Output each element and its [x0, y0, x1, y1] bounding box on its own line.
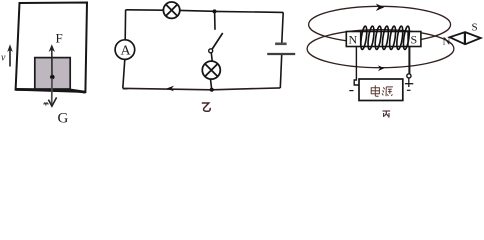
caption 丙	[383, 111, 391, 117]
compass needle	[450, 32, 481, 44]
wire battery down to bottom-right corner	[280, 55, 281, 88]
wire coil right to terminal	[408, 47, 410, 74]
switch S1 blade (open)	[212, 33, 223, 50]
svg-text:G: G	[58, 111, 69, 124]
svg-text:S: S	[411, 32, 418, 46]
wire switch to lamp L2	[210, 53, 213, 61]
minus tick	[407, 89, 411, 91]
battery BT1	[267, 44, 295, 54]
block (shaded)	[35, 58, 70, 89]
bottom wire left segment with current arrow	[123, 88, 212, 89]
svg-text:v: v	[1, 53, 6, 64]
junction node bottom	[210, 88, 214, 92]
svg-text:S: S	[472, 22, 478, 34]
svg-text:A: A	[121, 44, 132, 59]
center dot	[50, 75, 55, 80]
weight arrow G	[44, 78, 57, 106]
label minus	[349, 90, 353, 92]
wire lamp L2 to bottom junction	[211, 79, 212, 90]
wire bottom-left corner up to ammeter	[123, 59, 125, 88]
power source box	[359, 79, 403, 101]
terminal knob	[407, 74, 411, 78]
caption 乙	[202, 103, 210, 111]
pole box S	[408, 32, 417, 47]
field line bottom oval	[307, 30, 454, 68]
wire lamp L1 to junction	[180, 9, 215, 12]
force arrow F	[49, 44, 55, 76]
solenoid body	[346, 32, 421, 47]
container vessel	[16, 3, 87, 93]
svg-text:N: N	[349, 33, 358, 47]
wire junction to top-right corner	[215, 11, 284, 12]
svg-text:F: F	[56, 31, 63, 46]
wire coil left to source	[354, 47, 359, 85]
switch S1 wire from junction	[214, 11, 216, 29]
wire right side down to battery	[282, 12, 283, 43]
lamp L2	[202, 61, 220, 79]
ammeter A	[115, 40, 135, 60]
field line top oval	[309, 6, 451, 43]
label 电 (dian)	[371, 85, 379, 96]
field arrow top	[376, 4, 385, 11]
svg-text:N: N	[443, 36, 451, 48]
current direction arrow	[167, 86, 174, 92]
junction node	[213, 9, 217, 13]
label 源 (yuan)	[382, 87, 393, 96]
velocity arrow v	[7, 44, 13, 66]
wire top-left to lamp L1	[126, 9, 164, 11]
switch S1 pivot	[209, 49, 213, 53]
coil winding turns	[360, 26, 411, 50]
pole box N	[349, 32, 361, 47]
terminal post +	[405, 78, 413, 87]
lamp L1	[163, 2, 179, 18]
bottom wire right segment	[212, 88, 281, 90]
wire ammeter up to top-left corner	[124, 10, 126, 40]
field arrow bottom	[378, 65, 384, 71]
